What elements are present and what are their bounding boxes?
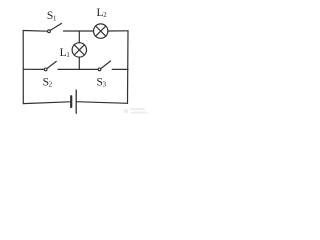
switch S2 (44, 61, 56, 70)
watermark (124, 108, 148, 114)
svg-text:S3: S3 (97, 76, 107, 88)
lamp L1 (72, 43, 86, 57)
wire lamp L1 down to node B (78, 57, 80, 69)
wire top right segment (108, 30, 128, 32)
wire middle left segment to switch S2 (23, 68, 44, 70)
svg-text:S2: S2 (43, 76, 53, 88)
wire bottom right segment from battery (77, 102, 128, 104)
wire middle segment node B to switch S3 (79, 68, 98, 70)
svg-text:L2: L2 (97, 7, 108, 19)
svg-text:S1: S1 (47, 10, 57, 22)
lamp L2 (94, 24, 108, 38)
wire middle segment S2 to node B (58, 68, 79, 70)
wire bottom left segment to battery (23, 102, 69, 104)
wire node A down to lamp L1 (78, 31, 80, 43)
switch S1 (48, 23, 62, 32)
battery (71, 90, 76, 113)
wire top left segment to switch S1 (23, 30, 47, 33)
wire right vertical (127, 31, 130, 104)
wire middle right segment to right edge (112, 68, 128, 70)
wire left vertical (22, 31, 24, 104)
switch S3 (98, 61, 111, 71)
svg-text:L1: L1 (60, 47, 70, 59)
wire top middle segment (64, 30, 94, 32)
